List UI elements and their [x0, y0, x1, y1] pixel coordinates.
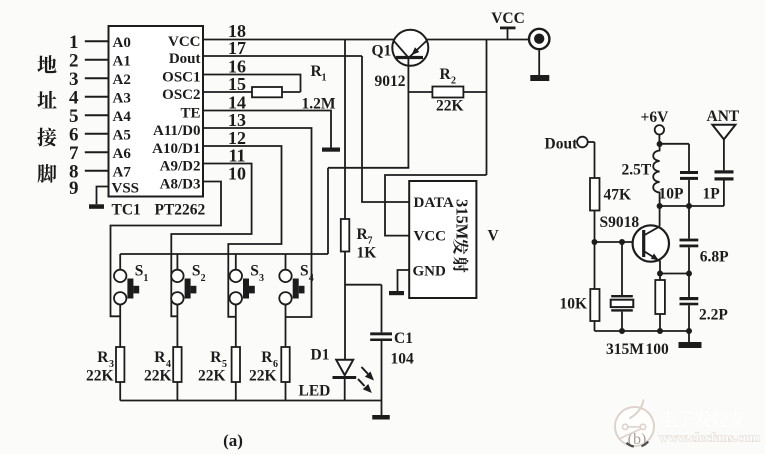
watermark logo dark arcs	[627, 443, 634, 447]
svg-text:+6V: +6V	[641, 109, 670, 126]
wire S1 to R3	[119, 317, 121, 348]
wire rail ground stub	[688, 331, 690, 342]
svg-text:A9/D2: A9/D2	[160, 159, 201, 175]
wire S1 top stub	[119, 254, 121, 270]
svg-text:4: 4	[309, 273, 314, 284]
svg-text:ANT: ANT	[707, 108, 740, 125]
capacitor 2.2P	[680, 297, 699, 300]
svg-text:R: R	[154, 349, 166, 366]
Q1 base bar	[396, 56, 423, 59]
svg-text:47K: 47K	[604, 187, 632, 204]
svg-text:VCC: VCC	[414, 229, 447, 245]
node rail end junction	[686, 328, 692, 334]
wire 6.8P lower	[688, 247, 690, 273]
wire pin17 Dout	[203, 55, 362, 57]
wire pin18 VCC rail	[203, 39, 530, 41]
wire 100 to rail	[659, 314, 661, 331]
svg-text:A8/D3: A8/D3	[160, 177, 201, 193]
wire pin 5 stub	[85, 114, 109, 116]
wire R1 right	[282, 91, 301, 93]
inductor L1 2.5T	[653, 144, 659, 206]
svg-text:S: S	[135, 263, 144, 280]
svg-text:9012: 9012	[375, 73, 406, 90]
wire pin11 to S2	[171, 164, 251, 317]
svg-text:A10/D1: A10/D1	[152, 141, 200, 157]
led D1 triangle	[336, 360, 353, 375]
wire module VCC feed	[385, 175, 487, 236]
wire module GND	[398, 270, 410, 291]
wire 2.2P lower	[688, 305, 690, 331]
wire pin 6 stub	[85, 133, 109, 135]
wire pin 7 stub	[85, 151, 109, 153]
wire antenna down	[723, 139, 725, 170]
wire common rail riser	[327, 168, 329, 254]
wire emitter rail	[595, 330, 690, 332]
resistor R5	[232, 347, 240, 382]
node emitter junction	[657, 271, 663, 277]
resistor R1	[252, 87, 282, 97]
svg-text:11: 11	[228, 146, 245, 166]
wire S4 bottom stub	[285, 305, 287, 317]
svg-text:1: 1	[322, 73, 327, 84]
wire pin 1 stub	[85, 40, 109, 42]
resistor R10 100	[655, 280, 665, 314]
connector J1 outer	[529, 29, 549, 49]
svg-text:A3: A3	[113, 90, 131, 106]
label 址	[37, 91, 56, 109]
svg-text:2.2P: 2.2P	[699, 307, 728, 324]
antenna symbol	[712, 125, 735, 140]
wire switch common rail	[120, 253, 328, 255]
ground VSS	[89, 204, 104, 209]
ground connector	[530, 75, 549, 81]
svg-text:A0: A0	[113, 35, 131, 51]
svg-text:DATA: DATA	[414, 195, 454, 211]
node cap divider junction	[686, 271, 692, 277]
node tank junction	[657, 203, 663, 209]
switch S3	[230, 270, 242, 282]
wire C1 top link	[345, 284, 382, 286]
wire 10P lower	[688, 180, 690, 206]
wire R2 left	[408, 91, 432, 93]
svg-text:Dout: Dout	[545, 136, 579, 153]
svg-text:9: 9	[69, 178, 79, 199]
ground TE	[322, 148, 340, 152]
wire pin16 OSC1	[203, 75, 301, 93]
svg-text:C1: C1	[394, 330, 413, 347]
wire Q1 base down	[407, 59, 409, 168]
connector J1 center pin	[534, 34, 544, 44]
watermark logo tail	[630, 400, 644, 419]
switch S4	[279, 270, 291, 282]
wire S1 bottom stub	[119, 305, 121, 317]
watermark site name	[661, 410, 746, 427]
svg-text:A7: A7	[113, 164, 132, 180]
svg-text:104: 104	[391, 351, 415, 368]
wire divider to 2.2P	[688, 274, 690, 298]
wire R5 to rail	[235, 382, 237, 401]
switch S1	[114, 270, 126, 282]
svg-text:22K: 22K	[249, 368, 277, 385]
wire VSS to ground	[97, 187, 109, 205]
svg-text:2: 2	[451, 76, 456, 87]
capacitor 10P	[680, 171, 698, 174]
Q2 arrow	[651, 253, 659, 260]
svg-text:Q1: Q1	[372, 43, 392, 60]
wire pin13 to S4	[203, 128, 312, 317]
wire R3 to rail	[119, 382, 121, 401]
svg-text:A1: A1	[113, 53, 131, 69]
wire crystal upper	[621, 242, 623, 295]
svg-text:TC1: TC1	[112, 202, 141, 219]
svg-text:S: S	[192, 263, 201, 280]
svg-text:VSS: VSS	[112, 181, 140, 197]
wire R7 from VCC rail	[344, 40, 346, 220]
svg-text:315M: 315M	[606, 341, 644, 358]
wire pin14 TE	[203, 111, 331, 148]
node +6V junction	[657, 141, 663, 147]
terminal +6V	[655, 125, 664, 134]
svg-text:1K: 1K	[357, 245, 377, 262]
wire C1 lower	[381, 341, 383, 401]
node base junction	[592, 239, 598, 245]
wire pin 4 stub	[85, 96, 109, 98]
svg-text:1P: 1P	[703, 186, 721, 203]
wire pin12 to S3	[203, 146, 282, 317]
node 100 rail junction	[657, 328, 663, 334]
svg-text:22K: 22K	[86, 368, 114, 385]
Q1 emitter line	[394, 41, 408, 57]
transistor Q2 S9018 body	[633, 225, 669, 261]
svg-text:1: 1	[143, 273, 148, 284]
svg-text:10P: 10P	[659, 186, 685, 203]
svg-text:R: R	[210, 349, 222, 366]
wire collector node rail	[660, 205, 724, 207]
svg-text:D1: D1	[311, 347, 330, 364]
led D1 cathode bar	[333, 376, 357, 379]
wire S4 top stub	[285, 254, 287, 270]
wire 6.8P upper	[688, 206, 690, 239]
Q2 collector line	[644, 226, 660, 235]
capacitor C1	[370, 332, 392, 335]
svg-text:S9018: S9018	[600, 214, 640, 231]
label 脚	[38, 164, 57, 183]
wire 10P upper	[688, 144, 690, 171]
wire base lead	[595, 241, 644, 243]
Q2 emitter line	[644, 251, 660, 261]
wire Dout terminal	[588, 141, 595, 143]
wire S2 top stub	[176, 254, 178, 270]
svg-text:10: 10	[228, 164, 246, 184]
wire Dout down	[594, 142, 596, 178]
svg-text:17: 17	[228, 38, 246, 58]
wire VCC rail to R2 net	[486, 40, 488, 176]
node crystal junction	[619, 239, 625, 245]
wire +6V down	[658, 135, 660, 145]
wire S2 bottom stub	[176, 305, 178, 317]
resistor R3	[116, 347, 124, 382]
svg-text:(a): (a)	[223, 431, 243, 450]
ground module	[389, 291, 404, 295]
svg-text:VCC: VCC	[491, 10, 525, 27]
Q1 collector line	[410, 41, 426, 57]
svg-text:LED: LED	[299, 383, 331, 400]
wire pin15 OSC2	[203, 91, 252, 93]
wire 47K to base	[594, 211, 596, 243]
node 10P rail junction	[686, 203, 692, 209]
wire LED to rail	[344, 378, 346, 401]
wire R7 to LED	[344, 252, 346, 360]
svg-text:V: V	[488, 228, 500, 245]
wire emitter to 100	[659, 274, 661, 281]
wire crystal lower	[621, 312, 623, 331]
wire pin 2 stub	[85, 59, 109, 61]
svg-text:S: S	[250, 263, 259, 280]
wire emitter to caps	[660, 273, 689, 275]
module vertical label 315M	[453, 199, 472, 240]
wire connector to ground	[538, 49, 540, 75]
wire 1P lower	[723, 181, 725, 207]
resistor R6	[281, 347, 289, 382]
node crystal rail junction	[619, 328, 625, 334]
svg-text:3: 3	[259, 273, 264, 284]
label 地	[37, 55, 56, 73]
wire VCC tick stub	[507, 29, 509, 40]
capacitor 1P	[715, 170, 734, 173]
svg-text:6.8P: 6.8P	[700, 249, 729, 266]
wire pin 3 stub	[85, 77, 109, 79]
wire Q2 emitter down	[659, 261, 661, 274]
svg-text:22K: 22K	[198, 368, 226, 385]
wire S3 top stub	[235, 254, 237, 270]
resistor R8 47K	[590, 178, 600, 211]
wire R2 right	[463, 91, 486, 93]
svg-text:15: 15	[228, 74, 246, 94]
label 接	[37, 128, 56, 147]
wire C1 upper	[381, 285, 383, 333]
watermark logo pins	[623, 424, 628, 429]
IC U1 PT2262 body	[109, 26, 204, 197]
crystal X1 315M	[611, 295, 633, 297]
resistor R4	[173, 347, 181, 382]
svg-text:22K: 22K	[436, 98, 464, 115]
svg-text:A5: A5	[113, 127, 131, 143]
wire base net rail	[328, 167, 409, 169]
svg-text:R: R	[440, 66, 452, 83]
switch S2	[171, 270, 183, 282]
transistor Q1 body	[392, 30, 428, 66]
svg-text:2: 2	[201, 273, 206, 284]
wire bottom ground rail	[120, 400, 381, 402]
wire R6 to rail	[285, 382, 287, 401]
capacitor 6.8P	[680, 239, 699, 242]
Q1 arrow	[411, 47, 419, 55]
led D1 arrows	[362, 367, 369, 374]
module 315M box	[409, 181, 476, 298]
wire Dout to DATA	[362, 56, 409, 202]
svg-text:R: R	[261, 349, 273, 366]
svg-text:315M: 315M	[453, 199, 472, 240]
svg-text:GND: GND	[413, 264, 447, 280]
wire +6V to 10P	[660, 143, 689, 145]
svg-text:2.5T: 2.5T	[622, 162, 652, 179]
svg-text:OSC2: OSC2	[162, 87, 200, 103]
svg-text:Dout: Dout	[169, 51, 201, 67]
svg-text:A6: A6	[113, 146, 132, 162]
wire S3 bottom stub	[235, 305, 237, 317]
wire base to 10K	[594, 242, 596, 289]
VCC tick symbol	[500, 27, 516, 30]
svg-text:A2: A2	[113, 72, 131, 88]
Q2 base bar	[642, 230, 645, 257]
svg-text:PT2262: PT2262	[155, 202, 206, 219]
wire ground stub	[381, 401, 383, 416]
ground oscillator	[679, 342, 702, 348]
ground bottom	[372, 415, 390, 420]
watermark logo circle	[615, 407, 654, 446]
svg-text:OSC1: OSC1	[162, 70, 200, 86]
terminal Dout	[577, 137, 588, 148]
wire S4 to R6	[285, 317, 287, 348]
svg-text:www.elecfans.com: www.elecfans.com	[659, 430, 760, 445]
svg-text:A11/D0: A11/D0	[153, 123, 201, 139]
svg-text:100: 100	[646, 341, 670, 358]
wire S3 to R5	[235, 317, 237, 348]
wire S2 to R4	[176, 317, 178, 348]
svg-text:10K: 10K	[559, 296, 587, 313]
resistor R7	[341, 219, 350, 252]
svg-text:A4: A4	[113, 109, 132, 125]
wire pin10 to S1	[111, 182, 222, 317]
resistor R9 10K	[590, 289, 599, 321]
svg-text:22K: 22K	[144, 368, 172, 385]
svg-text:13: 13	[228, 110, 246, 130]
resistor R2	[432, 87, 463, 98]
svg-text:VCC: VCC	[168, 34, 201, 50]
wire pin 8 stub	[85, 170, 109, 172]
wire 10K to rail	[594, 321, 596, 331]
svg-text:S: S	[300, 263, 309, 280]
svg-text:R: R	[97, 349, 109, 366]
svg-text:TE: TE	[180, 106, 200, 122]
wire R4 to rail	[176, 382, 178, 401]
wire Q2 collector up	[659, 206, 661, 226]
